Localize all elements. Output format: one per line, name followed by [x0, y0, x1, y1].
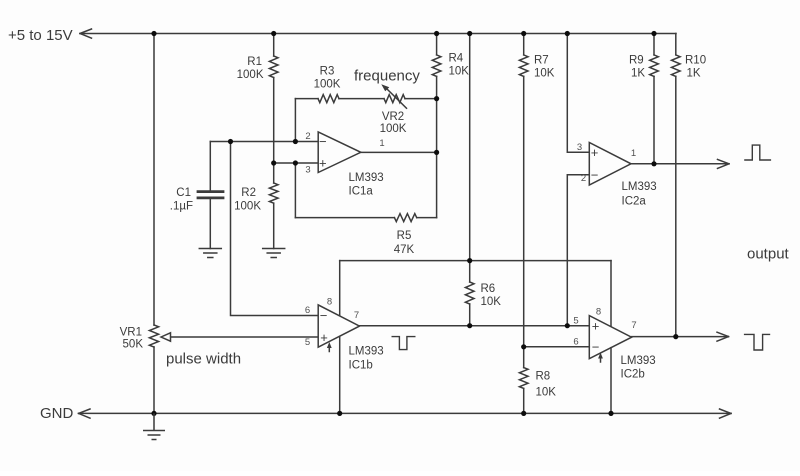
- op-amp IC1a: [318, 132, 361, 173]
- junction R6 bottom IC1b out: [467, 323, 472, 328]
- svg-text:100K: 100K: [234, 201, 261, 213]
- wire VR2 to R4 node: [405, 98, 437, 100]
- resistor R10: [675, 34, 677, 55]
- wire VR1 wiper to IC1b pin5: [170, 336, 318, 338]
- wire IC2a output: [631, 163, 729, 165]
- svg-text:VR2: VR2: [382, 111, 404, 123]
- junction rail IC2a pin3: [565, 31, 570, 36]
- svg-text:−: −: [319, 134, 327, 149]
- svg-text:5: 5: [573, 316, 578, 327]
- node IC2b output arrow: [717, 332, 729, 341]
- wire IC1b pin4 to GND: [339, 336, 341, 413]
- svg-text:1K: 1K: [631, 68, 645, 80]
- ground main at x154: [143, 413, 165, 439]
- svg-text:LM393: LM393: [349, 346, 384, 358]
- node IC2a output arrow: [718, 159, 730, 168]
- svg-text:IC1a: IC1a: [349, 186, 374, 198]
- wire feedback top left segment: [295, 98, 318, 100]
- junction R9 IC2a out: [651, 161, 656, 166]
- svg-text:R8: R8: [536, 371, 551, 383]
- svg-text:+: +: [591, 145, 599, 160]
- svg-text:GND: GND: [40, 405, 74, 422]
- svg-text:R10: R10: [685, 55, 706, 67]
- svg-text:R2: R2: [241, 187, 256, 199]
- svg-text:10K: 10K: [481, 296, 502, 308]
- junction GND R8: [521, 411, 526, 416]
- svg-text:LM393: LM393: [621, 355, 656, 367]
- op-amp IC2b: [589, 316, 631, 359]
- wire R4 column down to R5 line: [436, 76, 438, 217]
- svg-text:R7: R7: [534, 55, 549, 67]
- svg-text:8: 8: [596, 307, 601, 318]
- svg-text:−: −: [592, 340, 600, 355]
- wire R6 to IC1b output line: [469, 304, 471, 326]
- svg-text:100K: 100K: [237, 69, 264, 81]
- svg-text:+5 to 15V: +5 to 15V: [8, 27, 73, 44]
- resistor R1: [273, 34, 275, 57]
- svg-text:−: −: [591, 168, 599, 183]
- potentiometer VR2: [384, 95, 405, 103]
- op-amp IC2a: [589, 143, 631, 186]
- svg-text:6: 6: [573, 337, 578, 348]
- svg-text:R5: R5: [397, 230, 412, 242]
- svg-text:R3: R3: [320, 66, 335, 78]
- op-amp IC1b: [318, 305, 359, 347]
- resistor R5: [394, 214, 416, 222]
- svg-text:−: −: [320, 308, 328, 323]
- wire IC2b pin6 input: [524, 346, 590, 348]
- svg-text:IC1b: IC1b: [349, 360, 373, 372]
- svg-text:6: 6: [305, 305, 310, 316]
- svg-text:VR1: VR1: [120, 327, 142, 339]
- junction feedback R4: [434, 96, 439, 101]
- junction R1 R2 pin3: [271, 160, 276, 165]
- wire R10 down to IC2b output: [675, 76, 677, 336]
- wire IC2b pin8: [610, 261, 612, 327]
- wire left main vertical x154: [153, 34, 155, 326]
- svg-text:7: 7: [631, 320, 636, 331]
- potentiometer VR1: [149, 325, 158, 347]
- svg-text:2: 2: [305, 131, 310, 142]
- wire feedback left vertical lower: [294, 163, 296, 218]
- svg-text:3: 3: [577, 142, 582, 153]
- junction rail R7: [521, 31, 526, 36]
- svg-text:+: +: [320, 330, 328, 345]
- junction GND IC1b pin4: [337, 411, 342, 416]
- svg-text:2: 2: [581, 173, 586, 184]
- svg-text:R4: R4: [449, 53, 464, 65]
- wire R2 to ground: [273, 203, 275, 248]
- svg-text:.1µF: .1µF: [170, 201, 193, 213]
- wire IC2b pin4 to GND: [610, 348, 612, 414]
- svg-text:R6: R6: [481, 283, 496, 295]
- wire IC1b pin8: [339, 261, 341, 316]
- ground C1: [199, 249, 221, 258]
- svg-text:10K: 10K: [536, 387, 557, 399]
- node VR1 wiper arrowhead: [161, 333, 171, 341]
- wire R8 to GND: [523, 388, 525, 413]
- svg-text:10K: 10K: [449, 66, 470, 78]
- svg-text:8: 8: [327, 297, 332, 308]
- svg-text:3: 3: [305, 165, 310, 176]
- svg-text:frequency: frequency: [354, 68, 420, 85]
- wire IC2a pin3 from rail: [567, 34, 589, 153]
- svg-text:1: 1: [379, 138, 384, 149]
- wire V+ top rail: [80, 33, 676, 35]
- svg-text:IC2b: IC2b: [621, 369, 645, 381]
- svg-text:50K: 50K: [123, 339, 144, 351]
- resistor R8: [519, 368, 528, 389]
- junction R6 top: [467, 258, 472, 263]
- node GND right arrow: [720, 409, 732, 418]
- svg-text:LM393: LM393: [349, 172, 384, 184]
- resistor R6: [465, 282, 474, 304]
- resistor R4: [436, 34, 438, 55]
- svg-text:10K: 10K: [534, 68, 555, 80]
- svg-text:100K: 100K: [380, 123, 407, 135]
- junction rail x470: [467, 31, 472, 36]
- wire R9 to IC2a output: [653, 76, 655, 163]
- wire IC1a pin2 input: [210, 141, 318, 143]
- svg-text:5: 5: [305, 337, 310, 348]
- wire VR1 to GND: [153, 347, 155, 413]
- resistor R3: [318, 95, 339, 103]
- junction rail R1: [271, 31, 276, 36]
- wire R5 loop bottom: [295, 217, 394, 219]
- node IC2b pin4 arrow: [600, 356, 602, 363]
- node IC1b pin4 arrow: [328, 345, 330, 352]
- svg-text:LM393: LM393: [622, 181, 657, 193]
- wire R7 down to IC2b pin6 node: [523, 76, 525, 367]
- junction rail R4: [434, 31, 439, 36]
- node waveform negative pulse IC2b: [745, 334, 770, 350]
- wire IC1b output to IC2b pin5: [360, 325, 590, 327]
- svg-text:C1: C1: [176, 187, 191, 199]
- wire pin8 supply line y260: [340, 260, 611, 262]
- capacitor C1: [209, 142, 211, 191]
- svg-text:R1: R1: [247, 56, 262, 68]
- svg-text:7: 7: [354, 310, 359, 321]
- junction IC2a pin2 IC1b out: [565, 323, 570, 328]
- svg-text:R9: R9: [629, 55, 644, 67]
- junction feedback pin2: [293, 139, 298, 144]
- junction rail x154: [151, 31, 156, 36]
- junction IC2b pin6 R7 R8: [521, 344, 526, 349]
- node V+ arrow: [80, 29, 92, 38]
- resistor R7: [523, 34, 525, 55]
- svg-text:1: 1: [631, 148, 636, 159]
- junction IC1a output R4: [434, 150, 439, 155]
- svg-text:IC2a: IC2a: [622, 196, 647, 208]
- wire R3 to VR2: [339, 98, 384, 100]
- wire IC1a output: [361, 151, 437, 153]
- junction GND x154: [151, 411, 156, 416]
- resistor R9: [653, 34, 655, 55]
- junction C1 pin2: [228, 139, 233, 144]
- junction rail R9: [651, 31, 656, 36]
- ground R2: [263, 249, 285, 258]
- svg-text:1K: 1K: [687, 68, 701, 80]
- junction R5 loop pin3: [293, 160, 298, 165]
- wire IC2a pin2 down to IC2b pin5 node: [567, 175, 589, 326]
- svg-text:output: output: [747, 246, 790, 263]
- svg-text:100K: 100K: [314, 79, 341, 91]
- node VR2 wiper diagonal arrow: [386, 88, 407, 109]
- svg-text:+: +: [592, 319, 600, 334]
- wire R1 bottom to pin3 node: [273, 78, 275, 184]
- node waveform negative pulse IC1b: [392, 337, 415, 350]
- wire C1 to ground: [209, 199, 211, 248]
- resistor R2: [269, 183, 278, 203]
- svg-text:pulse width: pulse width: [166, 351, 241, 368]
- junction GND IC2b pin4: [608, 411, 613, 416]
- wire feedback left vertical upper: [294, 99, 296, 142]
- node waveform positive pulse IC2a: [745, 145, 771, 160]
- svg-text:+: +: [319, 156, 327, 171]
- wire IC1a pin3 input: [274, 162, 319, 164]
- junction R10 IC2b out: [673, 334, 678, 339]
- wire R5 to output node: [417, 217, 437, 219]
- wire IC2b output: [632, 336, 729, 338]
- wire V+ branch x470: [469, 34, 471, 283]
- svg-text:47K: 47K: [394, 244, 415, 256]
- node GND left arrow: [79, 409, 91, 418]
- wire junction to IC1b pin6 vertical: [231, 142, 319, 316]
- wire GND bottom rail: [79, 412, 732, 414]
